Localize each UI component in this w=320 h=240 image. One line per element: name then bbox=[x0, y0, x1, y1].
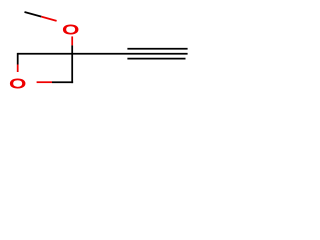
wire: bond C3-C(sp) plus center line of triple bond bbox=[72, 53, 187, 55]
wire: oxetane ring right edge C3-C4 bbox=[71, 53, 73, 83]
svg-text:O: O bbox=[9, 76, 27, 93]
wire: oxetane ring top edge C2-C3 bbox=[18, 53, 72, 55]
wire: triple bond lower line bbox=[127, 58, 185, 60]
wire: bond O(methoxy)-C3, red half below label bbox=[71, 36, 73, 45]
wire: bond O(methoxy)-C3, black half at C3 bbox=[71, 45, 73, 53]
wire: triple bond upper line bbox=[127, 48, 187, 50]
wire: oxetane ring left edge C2-O1, red half at O1 bbox=[17, 65, 19, 73]
wire: oxetane ring bottom edge C4-O1, red half at O1 bbox=[37, 81, 52, 83]
wire: bond CH3-O(methoxy), red half at O end bbox=[41, 17, 56, 21]
wire: bond CH3-O(methoxy), black half at CH3 end bbox=[25, 12, 42, 17]
wire: oxetane ring left edge C2-O1, black half at C2 bbox=[17, 53, 19, 65]
svg-text:O: O bbox=[62, 22, 80, 39]
wire: oxetane ring bottom edge C4-O1, black half at C4 bbox=[52, 81, 73, 83]
